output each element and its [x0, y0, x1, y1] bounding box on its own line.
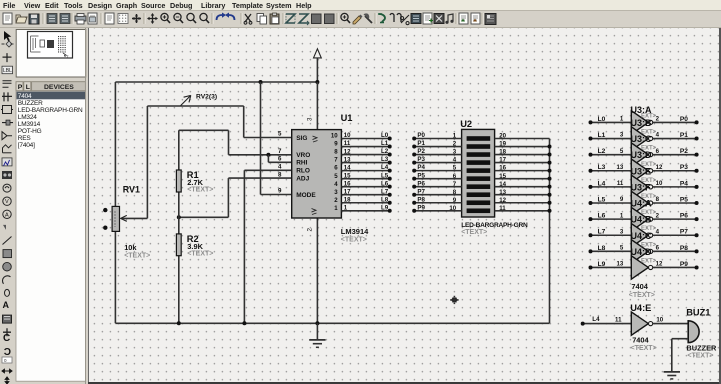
node L9 wire end	[388, 209, 392, 213]
node junction R2/ground rail	[177, 321, 181, 325]
svg-text:L: L	[26, 84, 30, 91]
wire output of U3:E to P4	[653, 186, 697, 188]
node P2 wire start	[412, 153, 416, 157]
svg-text:12: 12	[656, 261, 663, 268]
ground symbol (U1)	[309, 323, 325, 347]
svg-text:P4: P4	[417, 164, 425, 171]
svg-text:2: 2	[656, 212, 660, 219]
wire input L7 to gate U4:B	[591, 234, 632, 236]
resistor R1	[176, 170, 181, 192]
LED segment 3	[467, 152, 491, 157]
svg-text:U4:A: U4:A	[631, 199, 653, 209]
svg-text:13: 13	[499, 189, 506, 196]
svg-text:P0: P0	[417, 132, 425, 139]
svg-text:L6: L6	[598, 213, 606, 220]
wire ground bottom rail	[115, 322, 549, 324]
svg-text:P3: P3	[680, 164, 688, 171]
node P4 wire start	[412, 169, 416, 173]
LED segment 2	[467, 144, 491, 149]
node junction cathode bus	[548, 169, 552, 173]
svg-text:SIG: SIG	[296, 135, 307, 142]
wire U2 cathode pin 14	[495, 186, 550, 188]
wire U2 cathode pin 15	[495, 178, 550, 180]
node P6 wire start	[412, 185, 416, 189]
svg-text:L5: L5	[381, 172, 389, 179]
wire ADJ to R1/R2 junction	[179, 216, 229, 218]
wire U2 anode pin 6	[414, 178, 461, 180]
svg-text:U3:B: U3:B	[631, 118, 653, 128]
wire RHI into U1	[268, 161, 291, 163]
svg-text:VRO: VRO	[296, 152, 310, 159]
svg-text:L4: L4	[592, 316, 600, 323]
svg-text:L1: L1	[598, 132, 606, 139]
potentiometer RV1	[112, 206, 127, 231]
svg-text:RLO: RLO	[296, 167, 310, 174]
node L4 wire start	[589, 185, 593, 189]
svg-text:4: 4	[656, 228, 660, 235]
buzzer BUZ1	[688, 321, 699, 343]
svg-text:12: 12	[656, 164, 663, 171]
node junction cathode bus	[548, 201, 552, 205]
node L0 wire start	[589, 120, 593, 124]
wire U2 cathode bus	[549, 139, 551, 324]
svg-text:P1: P1	[680, 132, 688, 139]
resistor R2	[176, 234, 181, 256]
wire MODE horizontal to U1	[261, 194, 292, 196]
svg-text:EXT>: EXT>	[641, 258, 657, 264]
node junction RLO/ground rail	[242, 321, 246, 325]
svg-text:P8: P8	[417, 196, 425, 203]
wire U2 anode pin 10	[414, 210, 461, 212]
svg-text:7404: 7404	[631, 282, 648, 291]
wire U2 anode pin 7	[414, 186, 461, 188]
svg-text:RES: RES	[18, 135, 32, 142]
svg-text:LM324: LM324	[18, 114, 37, 121]
node P4 wire end	[695, 185, 699, 189]
wire U1 pin2 V- stub to ground	[316, 218, 318, 323]
svg-text:U4:C: U4:C	[631, 231, 653, 241]
node L3 wire start	[589, 169, 593, 173]
svg-text:7404: 7404	[18, 93, 32, 100]
svg-text:4: 4	[656, 132, 660, 139]
svg-text:P6: P6	[417, 180, 425, 187]
node junction cathode bus	[548, 177, 552, 181]
inverter U4:D (7404)	[631, 256, 652, 279]
inverter U4:B (7404)	[631, 224, 652, 247]
svg-text:13: 13	[617, 164, 624, 171]
wire U1 pin3 V+ stub	[316, 82, 318, 130]
wire U1 LED output pin 11	[341, 146, 389, 148]
wire input L6 to gate U4:A	[591, 218, 632, 220]
svg-text:6: 6	[656, 148, 660, 155]
svg-text:7: 7	[278, 148, 282, 155]
svg-text:2: 2	[656, 116, 660, 123]
svg-text:LED-BARGRAPH-GRN: LED-BARGRAPH-GRN	[461, 222, 528, 229]
node junction cathode bus	[548, 209, 552, 213]
node L1 wire start	[589, 137, 593, 141]
wire buzzer bottom lead	[672, 338, 688, 340]
wire U2 cathode pin 12	[495, 202, 550, 204]
wire SIG net drop	[243, 106, 245, 138]
svg-text:18: 18	[499, 149, 506, 156]
svg-text:6: 6	[278, 156, 282, 163]
svg-text:U1: U1	[341, 113, 353, 123]
node P5 wire end	[695, 201, 699, 205]
svg-text:L7: L7	[598, 229, 606, 236]
wire RLO down to ground rail	[243, 170, 245, 323]
svg-text:16: 16	[344, 180, 351, 187]
node L3 wire end	[388, 161, 392, 165]
svg-text:<TEXT>: <TEXT>	[187, 251, 213, 258]
svg-text:12: 12	[499, 197, 506, 204]
svg-text:[7404]: [7404]	[18, 142, 35, 149]
svg-text:13: 13	[617, 261, 624, 268]
svg-text:L3: L3	[381, 156, 389, 163]
node P9 wire end	[695, 265, 699, 269]
svg-text:3: 3	[620, 228, 624, 235]
LED segment 10	[467, 208, 491, 213]
svg-text:17: 17	[344, 188, 351, 195]
svg-text:8: 8	[656, 196, 660, 203]
node L8 wire start	[589, 249, 593, 253]
node P8 wire end	[695, 249, 699, 253]
svg-text:RHI: RHI	[296, 159, 307, 166]
wire input L9 to gate U4:D	[591, 266, 632, 268]
node L5 wire start	[589, 201, 593, 205]
wire U4:E output to buzzer	[653, 323, 689, 325]
wire U2 anode pin 4	[414, 162, 461, 164]
svg-text:P9: P9	[680, 261, 688, 268]
svg-text:<TEXT>: <TEXT>	[124, 252, 150, 259]
svg-text:13: 13	[344, 156, 351, 163]
svg-text:U3:A: U3:A	[631, 105, 653, 115]
node junction cathode bus	[548, 153, 552, 157]
inverter U3:C (7404)	[631, 143, 652, 166]
inverter U4:C (7404)	[631, 240, 652, 263]
svg-text:U3:C: U3:C	[631, 134, 653, 144]
wire input L5 to gate U3:F	[591, 202, 632, 204]
svg-text:5: 5	[278, 131, 282, 138]
wire U2 anode pin 2	[414, 146, 461, 148]
svg-text:16: 16	[499, 165, 506, 172]
svg-text:<TEXT>: <TEXT>	[461, 229, 487, 236]
svg-text:4: 4	[278, 164, 282, 171]
node junction bottom rail / U1 V- / ground	[315, 321, 319, 325]
svg-text:<TEXT>: <TEXT>	[341, 237, 367, 244]
wire input L3 to gate U3:D	[591, 170, 632, 172]
wire U2 cathode pin 18	[495, 154, 550, 156]
svg-text:L5: L5	[598, 196, 606, 203]
node L2 wire start	[589, 153, 593, 157]
node P9 wire start	[412, 209, 416, 213]
svg-text:MODE: MODE	[296, 192, 316, 199]
svg-text:L8: L8	[598, 245, 606, 252]
wire output of U3:F to P5	[653, 202, 697, 204]
svg-text:P7: P7	[417, 188, 425, 195]
svg-text:L9: L9	[598, 261, 606, 268]
wire VRO to U1	[229, 154, 292, 156]
svg-text:L9: L9	[381, 204, 389, 211]
LED segment 6	[467, 176, 491, 181]
wire RLO into U1	[244, 169, 291, 171]
wire output of U3:B to P1	[653, 138, 697, 140]
node P7 wire start	[412, 193, 416, 197]
svg-text:P8: P8	[680, 245, 688, 252]
wire U2 cathode pin 17	[495, 162, 550, 164]
svg-text:L7: L7	[381, 188, 389, 195]
node junction cathode bus	[548, 185, 552, 189]
svg-text:18: 18	[344, 196, 351, 203]
svg-text:10: 10	[449, 205, 456, 212]
wire VRO top horizontal to R1	[179, 129, 229, 131]
wire U2 cathode pin 16	[495, 170, 550, 172]
inverter U3:F (7404)	[631, 191, 652, 214]
svg-text:C: C	[4, 347, 11, 358]
svg-text:P2: P2	[680, 148, 688, 155]
svg-text:U3:F: U3:F	[631, 182, 652, 192]
wire U1 LED output pin 13	[341, 162, 389, 164]
svg-text:L0: L0	[381, 132, 389, 139]
node junction cathode bus	[548, 145, 552, 149]
svg-text:15: 15	[499, 173, 506, 180]
svg-text:P4: P4	[680, 180, 688, 187]
svg-text:11: 11	[615, 316, 622, 323]
svg-text:LM3914: LM3914	[341, 227, 369, 236]
node junction top rail / U1 V+	[315, 80, 319, 84]
LED segment 8	[467, 192, 491, 197]
node P2 wire end	[695, 153, 699, 157]
wire buzzer to ground	[671, 339, 673, 372]
svg-text:RV2(3): RV2(3)	[196, 93, 217, 100]
svg-text:P6: P6	[680, 213, 688, 220]
wire SIG net vertical up	[146, 106, 148, 218]
svg-text:14: 14	[344, 164, 351, 171]
wire U1 LED output pin 16	[341, 186, 389, 188]
wire SIG net top horizontal	[147, 105, 243, 107]
svg-text:2: 2	[307, 228, 314, 232]
svg-text:9: 9	[620, 196, 624, 203]
node L5 wire end	[388, 177, 392, 181]
node junction cathode bus	[548, 161, 552, 165]
svg-text:A: A	[5, 212, 9, 218]
wire ADJ into U1	[228, 177, 291, 179]
wire U2 cathode pin 11	[495, 210, 550, 212]
wire U2 cathode pin 20	[495, 138, 550, 140]
svg-text:P5: P5	[417, 172, 425, 179]
wire U1 LED output pin 17	[341, 194, 389, 196]
svg-text:BUZZER: BUZZER	[18, 100, 43, 107]
wire input L4 to U4:E	[583, 323, 632, 325]
svg-text:5: 5	[620, 148, 624, 155]
svg-text:3: 3	[620, 132, 624, 139]
svg-text:12: 12	[344, 148, 351, 155]
wire U1 LED output pin 14	[341, 170, 389, 172]
svg-text:U2: U2	[460, 119, 472, 129]
svg-text:10: 10	[656, 180, 663, 187]
svg-text:15: 15	[344, 172, 351, 179]
svg-text:ADJ: ADJ	[296, 175, 309, 182]
svg-text:DEVICES: DEVICES	[44, 84, 74, 91]
wire SIG net into U1	[244, 137, 292, 139]
wire U1 LED output pin 1	[341, 210, 389, 212]
node P6 wire end	[695, 217, 699, 221]
wire RV1 wiper horizontal	[121, 217, 147, 219]
wire U1 LED output pin 15	[341, 178, 389, 180]
node L6 wire end	[388, 185, 392, 189]
node junction R1/R2/ADJ	[177, 215, 181, 219]
svg-text:LBL: LBL	[3, 68, 12, 74]
svg-text:17: 17	[499, 157, 506, 164]
node P3 wire start	[412, 161, 416, 165]
LED segment 4	[467, 160, 491, 165]
svg-text:U4:D: U4:D	[631, 247, 653, 257]
svg-text:10: 10	[656, 316, 663, 323]
wire U2 cathode pin 19	[495, 146, 550, 148]
wire VCC top rail	[115, 81, 317, 83]
svg-text:P3: P3	[417, 156, 425, 163]
node L9 wire start	[589, 265, 593, 269]
node junction VRO/RHI	[266, 153, 270, 157]
node L6 wire start	[589, 217, 593, 221]
node P0 wire end	[695, 120, 699, 124]
svg-text:U4:B: U4:B	[631, 215, 653, 225]
inverter U3:D (7404)	[631, 159, 652, 182]
node junction cathode bus	[548, 193, 552, 197]
svg-text:14: 14	[499, 181, 506, 188]
node L2 wire end	[388, 153, 392, 157]
node P3 wire end	[695, 169, 699, 173]
wire RHI dogleg vertical	[267, 155, 269, 163]
svg-text:11: 11	[344, 140, 351, 147]
wire output of U4:B to P7	[653, 234, 697, 236]
node P0 wire start	[412, 137, 416, 141]
wire input L2 to gate U3:C	[591, 154, 632, 156]
node P1 wire start	[412, 145, 416, 149]
wire output of U4:D to P9	[653, 266, 697, 268]
svg-text:U3:E: U3:E	[631, 166, 652, 176]
U1 analog marker top	[313, 136, 318, 142]
svg-text:L4: L4	[598, 180, 606, 187]
LED segment 5	[467, 168, 491, 173]
wire output of U3:A to P0	[653, 121, 697, 123]
wire input L1 to gate U3:B	[591, 138, 632, 140]
svg-text:11: 11	[499, 205, 506, 212]
wire U1 LED output pin 18	[341, 202, 389, 204]
LED segment 7	[467, 184, 491, 189]
svg-text:8: 8	[278, 171, 282, 178]
wire input L0 to gate U3:A	[591, 121, 632, 123]
wire R1 top lead	[178, 130, 180, 170]
svg-text:L2: L2	[598, 148, 606, 155]
node L7 wire start	[589, 233, 593, 237]
wire input L4 to gate U3:E	[591, 186, 632, 188]
svg-text:BUZZER: BUZZER	[686, 343, 717, 352]
svg-text:RV1: RV1	[123, 184, 140, 194]
node P8 wire start	[412, 201, 416, 205]
node P1 wire end	[695, 137, 699, 141]
ground symbol (buzzer)	[664, 372, 680, 379]
wire MODE vertical from VCC rail	[260, 82, 262, 195]
svg-text:19: 19	[499, 141, 506, 148]
wire left rail	[114, 82, 116, 323]
svg-text:10k: 10k	[124, 243, 137, 252]
svg-text:A: A	[3, 300, 10, 310]
svg-text:20: 20	[499, 133, 506, 140]
svg-text:L0: L0	[598, 116, 606, 123]
svg-text:L1: L1	[381, 140, 389, 147]
svg-text:1: 1	[344, 204, 348, 211]
wire R2 bottom to ground rail	[178, 256, 180, 324]
wire input L8 to gate U4:C	[591, 250, 632, 252]
svg-text:L2: L2	[381, 148, 389, 155]
svg-text:<TEXT>: <TEXT>	[187, 187, 213, 194]
U1 analog marker bottom	[312, 209, 317, 215]
svg-text:POT-HG: POT-HG	[18, 128, 42, 135]
node P5 wire start	[412, 177, 416, 181]
wire output of U4:A to P6	[653, 218, 697, 220]
wiper position arrow RV2(3)	[181, 95, 191, 105]
wire output of U3:C to P2	[653, 154, 697, 156]
inverter U3:B (7404)	[631, 127, 652, 150]
node L8 wire end	[388, 201, 392, 205]
wire U2 anode pin 8	[414, 194, 461, 196]
power terminal VCC	[314, 49, 322, 82]
svg-text:LM3914: LM3914	[18, 121, 41, 128]
wire VRO up	[228, 130, 230, 155]
LED segment 1	[467, 136, 491, 141]
svg-text:P0: P0	[680, 116, 688, 123]
svg-text:LED-BARGRAPH-GRN: LED-BARGRAPH-GRN	[18, 107, 83, 114]
inverter U4:E (7404)	[631, 312, 652, 335]
svg-text:V: V	[5, 199, 9, 205]
wire output of U3:D to P3	[653, 170, 697, 172]
svg-text:U3:D: U3:D	[631, 150, 653, 160]
svg-text:7404: 7404	[632, 336, 649, 345]
wire U2 anode pin 9	[414, 202, 461, 204]
svg-text:10: 10	[344, 132, 351, 139]
svg-text:<TEXT>: <TEXT>	[631, 345, 657, 352]
svg-text:P2: P2	[417, 148, 425, 155]
node L4 wire start	[581, 322, 585, 326]
wire U2 anode pin 1	[414, 138, 461, 140]
svg-text:U4:E: U4:E	[630, 303, 651, 313]
node L7 wire end	[388, 193, 392, 197]
inverter U3:E (7404)	[631, 175, 652, 198]
svg-text:6: 6	[656, 245, 660, 252]
svg-text:P: P	[18, 84, 23, 91]
svg-text:<TEXT>: <TEXT>	[687, 353, 713, 360]
svg-text:11: 11	[617, 180, 624, 187]
inverter U4:A (7404)	[631, 207, 652, 230]
svg-text:L8: L8	[381, 196, 389, 203]
wire U2 anode pin 3	[414, 154, 461, 156]
wire U1 LED output pin 12	[341, 154, 389, 156]
node L4 wire end	[388, 169, 392, 173]
svg-text:5: 5	[620, 245, 624, 252]
RV1 actuator dot bottom	[103, 226, 107, 230]
wire U2 anode pin 5	[414, 170, 461, 172]
svg-text:1: 1	[620, 116, 624, 123]
inverter U3:A (7404)	[631, 111, 652, 134]
svg-text:10: 10	[331, 133, 338, 140]
svg-text:<TEXT>: <TEXT>	[629, 292, 655, 299]
node L1 wire end	[388, 145, 392, 149]
svg-text:C: C	[3, 333, 10, 344]
RV1 actuator dot top	[103, 208, 107, 212]
node L0 wire end	[388, 137, 392, 141]
LED bargraph U2 body	[462, 129, 495, 217]
svg-text:P1: P1	[417, 140, 425, 147]
